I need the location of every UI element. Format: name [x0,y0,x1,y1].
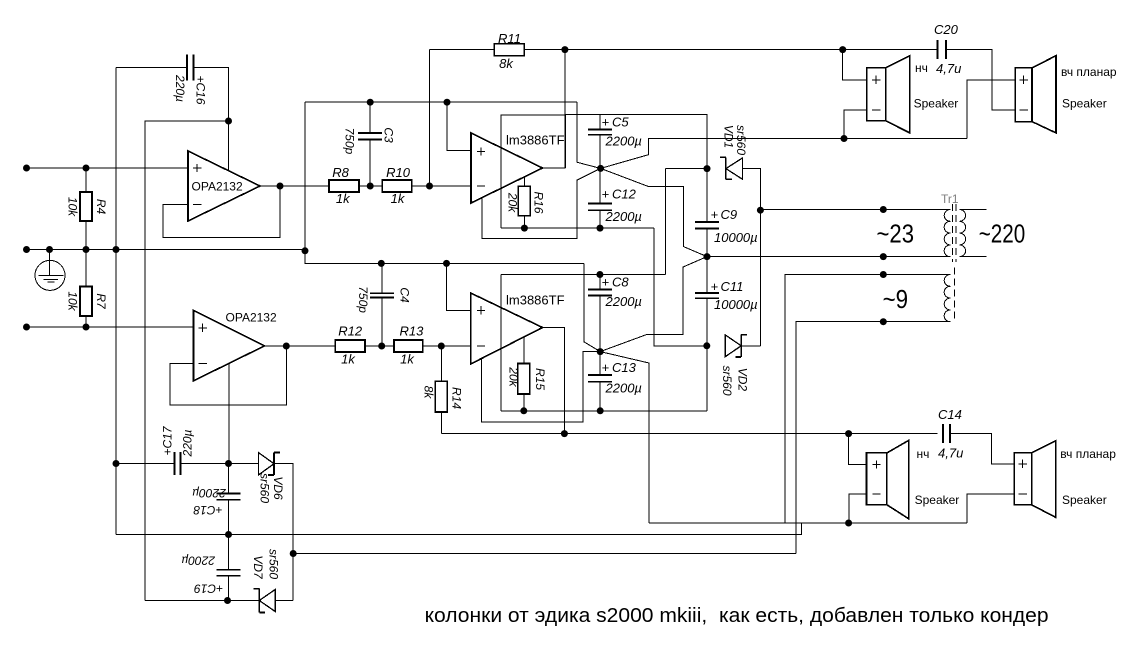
capacitor C8 [588,271,642,352]
capacitor C9 [695,169,758,257]
wire top line y=103 [305,99,577,250]
wire U4 output down [543,328,565,434]
svg-text:10k: 10k [65,291,79,311]
wire bottom supply row y=553.5 [293,553,796,555]
capacitor C12 [588,168,642,228]
wire op-amp U2 V- pin [228,364,230,464]
svg-text:+C19: +C19 [194,582,223,596]
svg-text:220µ: 220µ [173,74,187,102]
svg-text:Speaker: Speaker [915,493,960,507]
svg-text:2200µ: 2200µ [181,554,216,568]
svg-text:VD1: VD1 [721,125,735,148]
svg-text:~9: ~9 [883,284,909,314]
svg-text:R12: R12 [338,323,363,338]
wire R11 output row [524,46,937,53]
svg-text:C3: C3 [382,127,396,143]
capacitor C18 [192,464,240,535]
wire VD2 cathode up [741,345,760,347]
wire VD2 node to C13 row [706,346,708,411]
wire node1 to top line diag [577,102,600,168]
svg-text:~23: ~23 [877,219,915,249]
diode VD7 [145,549,281,613]
speaker LS3 woofer [867,440,960,519]
svg-text:2200µ: 2200µ [605,294,642,309]
wire node1 to speaker line [601,135,968,168]
svg-text:2200µ: 2200µ [605,380,642,395]
wire C20 to tweeter minus [946,50,1015,110]
wire input-top row [27,165,189,172]
wire rail link x=654 [654,228,707,346]
svg-text:C12: C12 [612,186,637,201]
wire VD7 anode loop [275,600,293,602]
wire ~9 bottom feed [796,318,950,553]
svg-text:R10: R10 [386,165,411,180]
node input-top terminal [23,165,30,172]
svg-text:Speaker: Speaker [1062,493,1107,507]
svg-text:C5: C5 [612,115,629,130]
label Tr1 [941,192,959,206]
power-amp U3 lm3886TF [471,133,543,203]
svg-text:R7: R7 [94,293,108,310]
svg-text:VD6: VD6 [271,476,285,500]
wire tweeter LS2 plus [967,80,1015,139]
wire node2 to bottom speaker line [600,352,649,523]
svg-text:4,7u: 4,7u [938,446,963,461]
wire op-amp U1 V+ pin [228,121,230,171]
resistor R16 [505,176,545,228]
node C16 output junction [225,118,232,125]
svg-text:OPA2132: OPA2132 [226,311,277,325]
svg-text:C9: C9 [721,207,738,222]
svg-text:Speaker: Speaker [914,97,959,111]
resistor R8 [329,165,359,206]
label ~9 [883,284,909,314]
wire R8-R10 junction [359,183,383,190]
wire input-bottom row [27,324,194,331]
wire U3 package box [501,115,566,228]
wire V- rail left (x=145) [145,121,229,601]
svg-text:+: + [711,207,719,222]
svg-text:R16: R16 [532,191,546,213]
svg-text:4,7u: 4,7u [936,61,961,76]
svg-text:C8: C8 [612,275,629,290]
wire woofer LS3 minus [849,494,867,523]
svg-text:20k: 20k [506,366,520,387]
wire VD6 cathode loop [274,464,297,601]
wire R10 to U3 inverting input [412,183,471,190]
svg-text:sr560: sr560 [257,473,271,503]
label ~23 [877,219,915,249]
wire input-mid row [27,246,584,267]
op-amp U1 OPA2132 [188,151,260,221]
node C9-C11 midpoint [704,253,711,260]
capacitor C4 [356,263,412,346]
wire V+ rail left (x=116) [115,68,117,535]
transformer Tr1 primary ~23 winding [944,210,950,257]
wire ~9 top feed [785,271,950,523]
wire woofer LS3 plus [849,434,867,465]
svg-text:10000µ: 10000µ [714,297,758,312]
diode VD1 [704,125,749,180]
svg-text:вч планар: вч планар [1061,65,1117,79]
svg-text:R8: R8 [332,165,349,180]
svg-text:750p: 750p [343,128,357,155]
svg-text:~220: ~220 [979,219,1025,249]
node input-mid terminal [23,246,30,253]
wire U4 package box [501,275,666,411]
wire R13 to U4 inverting input [423,343,471,350]
diode VD2 [703,335,749,396]
svg-text:VD7: VD7 [251,555,265,580]
svg-text:C11: C11 [721,279,744,294]
wire woofer LS1 minus [844,110,867,138]
wire woofer LS1 plus [843,50,867,80]
wire U1 output [260,183,329,190]
wire ~23 top row [760,206,950,213]
wire U2 feedback [170,346,286,405]
svg-text:2200µ: 2200µ [605,134,642,149]
resistor R12 [335,323,365,366]
svg-text:750p: 750p [356,286,370,313]
wire U4 + input [447,263,471,310]
svg-text:+: + [602,360,610,375]
svg-text:lm3886TF: lm3886TF [506,133,565,148]
svg-text:C4: C4 [397,287,411,303]
wire R12-R13 junction [365,343,394,350]
wire U4 mute loop [482,352,601,423]
capacitor C5 [588,115,642,169]
svg-text:нч: нч [917,447,930,461]
resistor R11 [429,31,524,186]
resistor R14 [422,346,464,434]
ground [35,250,65,291]
svg-text:Tr1: Tr1 [941,192,959,206]
resistor R15 [506,337,547,411]
svg-text:+: + [602,115,610,130]
wire U3 output to R11 [543,50,566,168]
transformer Tr1 core [953,204,957,262]
wire node2 to C9 node [600,257,707,352]
svg-text:VD2: VD2 [736,368,750,392]
node U4 output star [597,348,604,355]
svg-text:C20: C20 [934,22,959,37]
capacitor C16 [116,55,229,122]
svg-text:10000µ: 10000µ [714,230,758,245]
capacitor C13 [588,352,642,411]
wire node1 to C9 node [601,168,707,256]
svg-text:1k: 1k [336,191,351,206]
wire bottom speaker feed row [442,430,938,437]
resistor R4 [65,168,108,250]
svg-text:10k: 10k [65,197,79,217]
wire U3 non-inverting input [447,102,471,150]
svg-text:+: + [602,275,610,290]
wire mid supply row y=534.5 [116,523,802,538]
transformer Tr1 ~9 winding [944,268,954,322]
svg-text:OPA2132: OPA2132 [192,180,243,194]
capacitor C14 [938,407,963,461]
svg-text:C13: C13 [612,360,637,375]
svg-text:+C17: +C17 [160,425,174,455]
speaker LS1 woofer [867,56,959,133]
svg-text:колонки от эдика s2000 mkiii,: колонки от эдика s2000 mkiii, как есть, … [425,605,1049,627]
wire U1 feedback [163,186,280,238]
wire C14 to tweeter plus [950,434,1015,464]
capacitor C19 [181,535,240,601]
svg-text:1k: 1k [400,351,415,366]
svg-text:+C16: +C16 [193,75,207,104]
wire rail2 bottom y=411 [501,407,707,414]
svg-text:1k: 1k [341,351,356,366]
svg-text:8k: 8k [422,386,436,400]
node U3 output star [597,165,604,172]
wire bottom speaker return row [649,520,967,527]
svg-text:R15: R15 [533,368,547,390]
capacitor C11 [695,257,758,346]
svg-text:220µ: 220µ [181,429,195,457]
resistor R13 [394,323,424,366]
svg-text:lm3886TF: lm3886TF [506,293,565,308]
svg-text:sr560: sr560 [267,549,281,579]
svg-text:Speaker: Speaker [1062,97,1107,111]
label ~220 [979,219,1025,249]
wire VD1 row to rail2 (x=665.7) [666,169,707,275]
svg-text:R4: R4 [94,199,108,215]
svg-text:R11: R11 [498,31,521,46]
wire node2 to mid row diag [584,263,600,351]
wire midpoint to ~23 bottom [707,253,950,260]
wire U3 mute loop [482,168,601,238]
svg-text:1k: 1k [391,191,406,206]
svg-text:R13: R13 [399,323,424,338]
capacitor C20 [934,22,961,76]
wire U2 output [265,343,336,350]
speaker LS2 tweeter [1015,56,1117,133]
svg-text:2200µ: 2200µ [192,486,227,500]
svg-text:R14: R14 [449,387,463,409]
resistor R10 [382,165,412,206]
node input-bottom terminal [23,324,30,331]
wire rail1 bottom y=228 [501,225,654,232]
op-amp U2 OPA2132 [194,310,277,380]
speaker LS4 tweeter [1014,441,1116,517]
svg-text:+: + [602,186,610,201]
svg-text:sr560: sr560 [734,125,748,155]
svg-text:sr560: sr560 [720,365,734,395]
svg-text:вч планар: вч планар [1060,447,1116,461]
diode VD6 [229,453,286,504]
power-amp U4 lm3886TF [471,293,543,364]
wire top line to VD1 (y=114.5) [566,115,708,169]
svg-text:+C18: +C18 [193,503,222,517]
capacitor C3 [343,102,396,186]
svg-text:2200µ: 2200µ [605,209,642,224]
svg-text:нч: нч [915,61,928,75]
svg-text:+: + [711,279,719,294]
capacitor C17 [113,425,233,475]
transformer Tr1 secondary ~220 winding [959,210,986,257]
caption text [425,605,1049,627]
svg-text:8k: 8k [499,56,514,71]
svg-text:20k: 20k [505,192,519,213]
resistor R7 [65,250,108,328]
svg-text:C14: C14 [938,407,962,422]
wire tweeter LS4 minus [967,494,1014,523]
wire VD1 anode loop [742,169,764,346]
